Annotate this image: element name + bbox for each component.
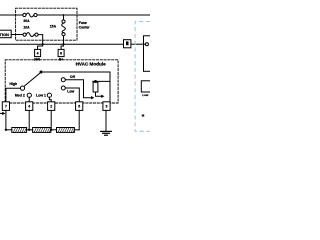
junction motor terminal [145, 43, 148, 46]
svg-text:15A: 15A [50, 25, 57, 29]
wire pin4b down [28, 110, 30, 129]
fuse F2 10A [23, 33, 38, 37]
svg-text:IGN: IGN [34, 57, 40, 61]
resistor RM vertical [93, 82, 98, 92]
contact Med 2 [27, 93, 31, 97]
wire Low to pin 5 [65, 88, 79, 102]
fuse F3 15A vertical [61, 15, 65, 49]
wire pin3 to ground [105, 110, 107, 130]
wire ignition box to fuse F2 [11, 34, 23, 36]
junction chain pin4b [28, 129, 30, 131]
svg-text:10A: 10A [23, 26, 30, 30]
svg-text:5: 5 [78, 105, 80, 109]
svg-text:Med 2: Med 2 [15, 94, 25, 98]
wire from left edge into pin7 node [0, 112, 3, 114]
junction chain left [5, 129, 7, 131]
ground [101, 131, 112, 135]
pin 4 IGN box [35, 49, 41, 56]
svg-text:B+: B+ [59, 57, 63, 61]
wire Off to wiper arrow [65, 80, 91, 98]
pin 5 box [76, 102, 83, 111]
junction B+ drop [62, 43, 64, 45]
blue harness dashed box [135, 22, 150, 132]
junction resistor top [94, 80, 97, 83]
junction fuse F3 top [63, 14, 65, 16]
junction IGN drop [42, 43, 44, 45]
ignition feed box [0, 30, 11, 38]
pin 2 box [48, 102, 55, 111]
contact Off [61, 78, 65, 82]
connector C1 inline [124, 40, 131, 48]
arrowhead into pin7 wire [2, 112, 5, 115]
svg-text:Center: Center [79, 26, 90, 30]
svg-text:2: 2 [50, 105, 52, 109]
svg-text:Off: Off [70, 75, 76, 79]
fuse F1 30A [23, 13, 37, 17]
svg-text:Low 1: Low 1 [36, 94, 46, 98]
wire chain seg2 [27, 129, 33, 131]
pin 6 B+ box [58, 49, 64, 56]
wire fuse F2 output to pin IGN [38, 35, 43, 50]
pin 7 box [2, 102, 9, 111]
svg-text:Low: Low [67, 90, 74, 94]
pin 4b box [26, 102, 33, 111]
wire resistor bottom to wiper arrow 2 [96, 92, 102, 96]
HVAC module dashed box [5, 60, 118, 103]
svg-text:Fuse: Fuse [79, 21, 87, 25]
wire pin7 to resistor chain [5, 110, 7, 129]
svg-text:7: 7 [5, 105, 7, 109]
junction chain pin2 [50, 129, 52, 131]
switch bus wire [41, 72, 110, 102]
wire pin5 down [78, 110, 80, 129]
svg-text:High: High [9, 82, 17, 86]
arrowhead wiper 1 [91, 96, 94, 99]
svg-text:4: 4 [37, 51, 39, 55]
resistor R3 blower [57, 127, 75, 132]
connector digit 1 [126, 41, 129, 45]
wire connector to blower motor box [131, 43, 146, 45]
wire fuse F1 output to right edge [37, 14, 150, 16]
resistor R2 blower [33, 127, 51, 132]
svg-text:IGNITION: IGNITION [0, 32, 9, 37]
arrowhead wiper 2 [101, 95, 104, 98]
contact Low [61, 86, 65, 90]
svg-text:4: 4 [28, 105, 30, 109]
wire long horizontal y44 [0, 43, 124, 45]
resistor R1 blower [12, 127, 27, 132]
wire Low1 to pin 2 [49, 97, 51, 102]
contact Low 1 [47, 93, 51, 97]
wire chain to pin5 drop [74, 129, 79, 131]
junction bus left [40, 71, 43, 74]
wire Med2 to pin 4b [28, 97, 30, 102]
wire High to pin 7 [6, 88, 21, 102]
wire link bar to bus leg [93, 80, 110, 82]
wire battery feed top left [0, 14, 23, 16]
svg-text:30A: 30A [23, 19, 30, 23]
wiper arm to High [24, 73, 40, 86]
svg-text:Low: Low [142, 93, 149, 97]
pin 3 box [103, 102, 110, 111]
fuse center dashed box [16, 8, 77, 40]
contact High [20, 86, 24, 90]
wire chain seg1 [6, 129, 12, 131]
box B low speed [141, 81, 153, 92]
blower motor box [144, 36, 155, 72]
wire chain seg3 [51, 129, 57, 131]
wire pin2 down [50, 110, 52, 129]
svg-text:6: 6 [60, 51, 62, 55]
svg-text:HVAC Module: HVAC Module [76, 61, 106, 66]
svg-text:3: 3 [106, 105, 108, 109]
